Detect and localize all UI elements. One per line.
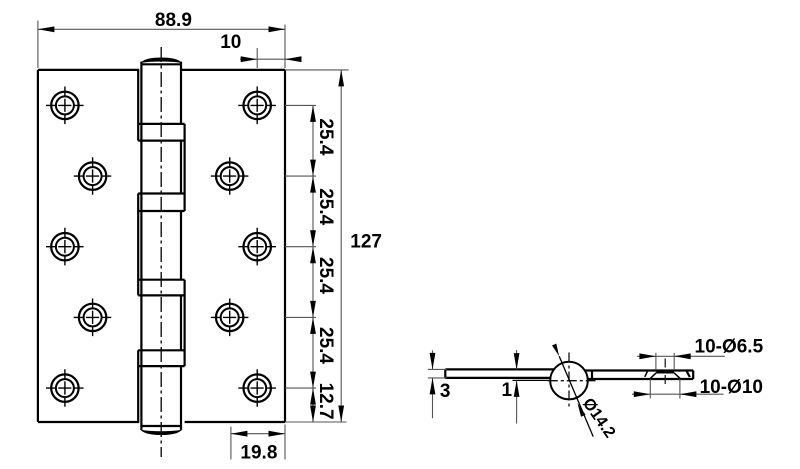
screw hole 5 [51,374,78,401]
screw hole 10 [244,374,271,401]
right leaf knuckle outer edge [184,124,186,211]
dimension 10-Ø6.5 pilot holes [655,353,657,369]
side view: barrel circle [550,362,588,400]
bar end chamfer tick [687,371,690,377]
svg-text:25.4: 25.4 [315,188,336,225]
svg-text:88.9: 88.9 [155,10,192,31]
svg-text:10: 10 [220,32,241,53]
hole row extension lines [285,104,316,106]
screw hole 3 [51,233,78,260]
svg-text:19.8: 19.8 [240,442,277,463]
svg-text:1: 1 [502,380,513,401]
dimension 88.9 overall width [37,21,39,69]
side view: left leaf bar [445,368,554,370]
dimension 3 leaf thickness [428,368,447,370]
bearing ring 4 [138,349,184,351]
dimension 127 overall height [285,69,349,71]
svg-text:25.4: 25.4 [315,327,336,364]
barrel centerline [160,47,162,457]
svg-text:10-Ø10: 10-Ø10 [700,377,763,398]
left leaf knuckle outer edge [137,70,139,141]
chain dimension line 25.4/12.7 [312,105,314,422]
dimension leader Ø14.2 barrel diameter [559,356,593,436]
screw hole 1 [51,92,78,119]
svg-text:10-Ø6.5: 10-Ø6.5 [695,336,764,357]
side view: lower leaf hidden edge (1mm offset) [513,379,552,381]
screw hole 4 [79,304,106,331]
screw hole 9 [216,304,243,331]
hinge barrel knuckle stack [140,64,142,426]
screw hole 8 [244,233,271,260]
dimension 19.8 bottom hole offset [230,427,232,460]
screw hole 7 [216,162,243,189]
svg-text:25.4: 25.4 [315,257,336,294]
screw hole 2 [79,162,106,189]
svg-text:3: 3 [440,381,451,402]
countersunk hole centerline [664,359,666,386]
screw hole 6 [244,92,271,119]
bearing ring 2 [138,192,184,194]
bearing ring 1 [138,123,184,125]
hinge plate outline (front view) [37,70,39,422]
dimension 10-Ø10 countersinks [649,379,651,399]
svg-text:12.7: 12.7 [315,383,336,420]
dimension 1 leaf gap [516,350,518,370]
svg-text:25.4: 25.4 [315,118,336,155]
dimension 10 hole edge distance [256,48,258,68]
countersunk hole section [656,370,674,372]
side view: right leaf bar [585,369,693,371]
bearing ring 3 [138,279,184,281]
svg-text:127: 127 [350,232,382,253]
